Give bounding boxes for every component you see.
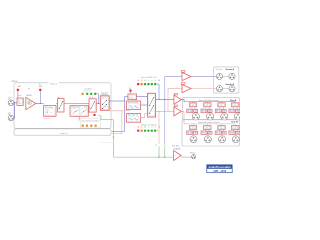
filter F1 high-pass filter [44,106,57,117]
wire TA2 to jacks [204,107,206,109]
wire extender B feed [167,89,169,112]
wire drop A1 [192,102,194,103]
svg-text:+48V: +48V [39,86,42,88]
jack JB3b [222,131,226,134]
svg-text:-10: -10 [144,127,146,129]
jack JA2b [208,110,212,113]
connector J5 XLR out front B [216,86,222,92]
connector XA1 XLR output [192,113,199,120]
oscillator G2 test tone [127,114,141,123]
svg-text:-20: -20 [141,80,143,82]
wire drop A3 [221,102,223,103]
wire meter1 tap [158,84,160,100]
wire TA3 to jacks [219,107,221,109]
jack JA1b [194,110,198,113]
output frame Out B [182,120,240,146]
connector J1 mic input XLR [8,100,14,106]
wire monitor bus green [113,156,173,158]
svg-text:+48V Ph.: +48V Ph. [11,81,18,83]
output frame Out A [182,97,239,119]
svg-text:-30: -30 [137,127,139,129]
op-amp U1 mic preamp [26,97,36,109]
wire U6 out to bus A [181,99,184,101]
wire drop A2 [206,102,208,103]
wire U5 out to extender B [191,88,216,90]
wire EQ1 to meter [78,116,80,120]
wire drop B1 [192,124,194,126]
wire preamp output [36,103,44,105]
wire TA1 to jacks [190,107,192,109]
wire drop B3 [221,124,223,126]
connector XB1 XLR output [190,136,197,143]
connector J7 headphone jack [191,155,195,159]
transformer TA2 output transformer [204,103,211,107]
wire out B pink [156,110,174,112]
svg-text:slope: slope [46,114,49,116]
jack JA4a [229,109,235,112]
compressor EQ1 dynamics section [70,106,88,117]
svg-text:AudioProcessBox: AudioProcessBox [208,165,231,169]
junction input wire [14,102,15,103]
wire line module to selector [137,96,148,98]
connector XA3 XLR output [221,113,228,120]
svg-text:-20 -10 -3 0: -20 -10 -3 0 [84,91,91,93]
transformer TA1 output transformer [189,103,196,107]
connector J4 XLR extender A [229,73,235,79]
op-amp U5 extender B driver [182,85,191,93]
wire monitor send green [100,115,101,116]
wire TB3 to jacks [219,130,221,131]
wire amp to phones [181,156,191,158]
wire bus B [184,123,235,125]
wire taps to monitor bus [158,146,160,157]
wire D1 to transformer [17,91,19,98]
resistor R2 [181,83,185,85]
wire D2 to signal line [39,91,41,104]
connector XA4 XLR output [234,113,241,120]
jack JA2a [201,109,207,112]
svg-text:Input 1: Input 1 [50,82,58,85]
wire extender A feed [165,76,182,78]
connector XA2 XLR output [207,113,214,120]
svg-text:Input 2: Input 2 [61,132,68,135]
jack JA3b [222,110,226,113]
wire TB2 to jacks [204,130,206,131]
wire J3 to J4 [223,75,229,77]
svg-text:Line: Line [130,97,133,99]
svg-text:+48V: +48V [17,86,20,88]
resistor R3 [174,93,177,95]
transformer TA4 output transformer [232,103,239,107]
wire drop A4 [234,102,236,103]
transformer TB4 output transformer [232,126,239,130]
transformer TB2 output transformer [204,126,211,130]
wire spare pale [100,141,113,143]
wire TB4 to jacks [232,130,234,131]
transformer TR1 input transformer [17,98,23,105]
line input module B1 [128,94,137,100]
op-amp U8 headphone amp [174,151,182,161]
connector J3 XLR out front A [216,73,222,79]
wire bus A [184,101,235,103]
svg-text:-30: -30 [137,80,139,82]
wire TA4 to jacks [232,107,234,109]
wire meter2 tap pink [158,111,160,144]
connector J6 XLR extender B [229,86,235,92]
input section frame Input 1 [14,83,111,129]
wire U4 out to extender A [191,76,216,78]
input section frame Input 2 [14,129,111,135]
LED D3 mute indicator [94,114,96,116]
wire drop B2 [206,124,208,126]
connector XB4 XLR output [232,136,239,143]
svg-text:18dB: 18dB [49,112,52,114]
wire J5 to J6 [223,88,229,90]
jack JB1a [187,131,193,134]
connector J2 mic input XLR [8,115,14,121]
extender output frame [213,67,239,93]
resistor R1 [181,70,185,72]
svg-text:NE5532: NE5532 [26,95,32,97]
wire input jacks to preamp [14,102,17,104]
title block [207,165,232,173]
wire main out A blue [156,99,174,101]
jack JB3a [215,131,221,134]
transformer TB1 output transformer [189,126,196,130]
wire main chain [56,103,100,105]
wire meter tap [97,93,99,95]
wire osc1 to selector [141,104,148,106]
wire router to source bus [109,100,124,102]
svg-text:Ph: Ph [39,84,41,86]
op-amp U4 extender A driver [182,72,191,80]
svg-text:dB: dB [158,80,160,82]
label Input 1 tab [49,82,59,85]
svg-text:bypass on: bypass on [44,118,50,120]
wire TB1 to jacks [190,130,192,131]
wire drop B4 [234,124,236,126]
jack JA3a [215,109,221,112]
svg-text:-10: -10 [144,80,146,82]
wire aux channel 2 pink [121,111,123,134]
wire router aux pink [109,107,111,109]
jack JB2a [201,131,207,134]
meter M2 gain reduction meter [80,118,100,128]
wire U7 out to bus B [181,110,184,112]
svg-text:1/2: 1/2 [102,98,104,100]
switch U3 source selector [148,93,156,117]
wire osc2 to selector [141,117,145,119]
svg-text:APB - 2009: APB - 2009 [213,170,227,173]
op-amp U6 output A driver [174,95,182,104]
connector XB3 XLR output [219,136,226,143]
transformer TB3 output transformer [218,126,225,130]
jack JB1b [194,131,198,134]
wire main monitor vertical [164,77,166,145]
jack JB4a [229,131,235,134]
connector XB2 XLR output [204,136,211,143]
svg-text:Inp: Inp [28,88,30,90]
svg-text:Phone: Phone [190,153,196,155]
jack JB2b [208,131,212,134]
jack JA4b [236,110,240,113]
op-amp U7 output B driver [174,107,182,116]
jack JB4b [236,131,240,134]
resistor R4 [174,105,177,107]
svg-text:-20: -20 [141,127,143,129]
jack JA1a [187,109,193,112]
oscillator G1 test tone [127,101,141,110]
transformer TA3 output transformer [218,103,225,107]
